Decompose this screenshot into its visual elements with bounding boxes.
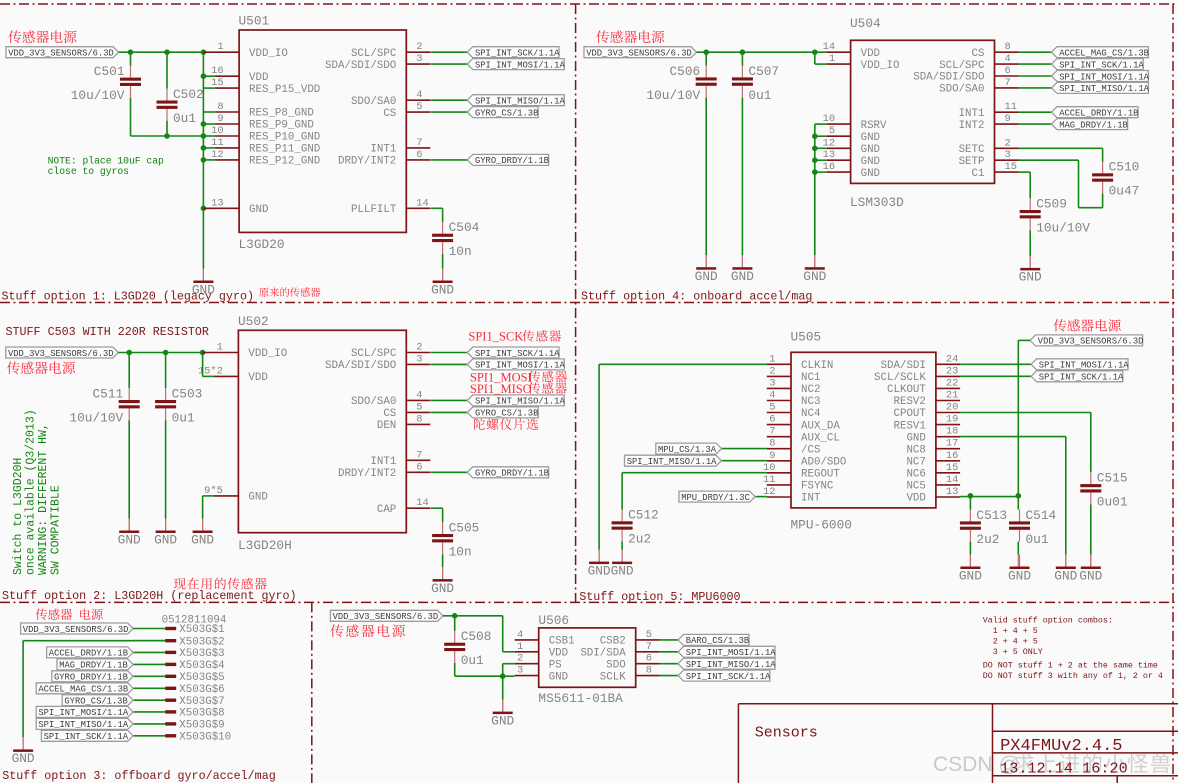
svg-text:11: 11 [763, 474, 775, 486]
svg-text:GYRO_CS/1.3B: GYRO_CS/1.3B [475, 409, 538, 419]
svg-text:SPI_INT_SCK/1.1A: SPI_INT_SCK/1.1A [686, 672, 771, 682]
svg-text:CS: CS [972, 48, 985, 60]
net label SPI_INT_MISO/1.1A [1052, 82, 1150, 94]
IC U506 MS5611-01BA [539, 628, 636, 687]
svg-text:9: 9 [217, 113, 223, 125]
svg-text:AUX_CL: AUX_CL [801, 432, 840, 444]
svg-text:VDD: VDD [249, 72, 268, 84]
pin 15 [211, 77, 239, 89]
node X503G$2 [133, 636, 225, 648]
wire flag to vertical [1018, 339, 1030, 341]
pin 3 [406, 353, 430, 365]
svg-text:BARO_CS/1.3B: BARO_CS/1.3B [686, 636, 749, 646]
svg-text:DRDY/INT2: DRDY/INT2 [338, 468, 396, 480]
capacitor C511 [69, 386, 139, 425]
section divider vertical center [575, 4, 577, 602]
svg-text:ACCEL_DRDY/1.1B: ACCEL_DRDY/1.1B [1059, 109, 1138, 119]
wires to net labels [431, 51, 468, 53]
PS pin2 elbow [503, 663, 515, 665]
svg-text:11: 11 [1005, 101, 1017, 113]
svg-text:NC5: NC5 [906, 481, 925, 493]
pin 12 [823, 137, 851, 149]
svg-text:Sensors: Sensors [755, 725, 818, 742]
svg-text:Stuff option 4: onboard accel/: Stuff option 4: onboard accel/mag [581, 290, 812, 304]
net label VDD_3V3_SENSORS/6.3D [330, 610, 443, 622]
svg-text:SPI1_SCK: SPI1_SCK [468, 330, 523, 344]
svg-text:1: 1 [829, 53, 835, 65]
svg-text:3: 3 [769, 377, 775, 389]
svg-text:NC1: NC1 [801, 372, 820, 384]
svg-text:SDO/SA0: SDO/SA0 [351, 96, 396, 108]
C501 leads [130, 52, 132, 66]
CAP wire to C505 [431, 507, 443, 509]
svg-text:7: 7 [1005, 77, 1011, 89]
svg-text:Switch to L3GD20H: Switch to L3GD20H [12, 458, 25, 575]
net label GYRO_CS/1.3B [467, 107, 538, 119]
pin 4 [406, 89, 430, 101]
net label MAG_DRDY/1.1B [57, 659, 133, 671]
svg-text:SPI_INT_MISO/1.1A: SPI_INT_MISO/1.1A [1059, 84, 1149, 94]
svg-text:RESV1: RESV1 [893, 420, 925, 432]
svg-text:GND: GND [861, 168, 880, 180]
svg-text:GND: GND [1019, 270, 1042, 285]
svg-text:VDD_3V3_SENSORS/6.3D: VDD_3V3_SENSORS/6.3D [586, 49, 692, 59]
svg-text:GND: GND [1079, 568, 1102, 583]
svg-text:6: 6 [646, 653, 652, 665]
svg-text:DO NOT stuff 1 + 2 at the same: DO NOT stuff 1 + 2 at the same time [983, 661, 1158, 671]
svg-text:9: 9 [769, 450, 775, 462]
ground [154, 519, 177, 548]
svg-text:4: 4 [769, 390, 775, 402]
svg-text:RES_P9_GND: RES_P9_GND [249, 120, 314, 132]
pin 3 [767, 377, 791, 389]
net label MPU_DRDY/1.3C [679, 491, 755, 503]
svg-text:SETC: SETC [959, 144, 985, 156]
svg-text:X503G$6: X503G$6 [179, 684, 224, 696]
svg-text:0u1: 0u1 [173, 111, 196, 126]
svg-text:VDD: VDD [248, 372, 267, 384]
svg-text:Stuff option 5: MPU6000: Stuff option 5: MPU6000 [579, 590, 740, 604]
svg-text:RES_P15_VDD: RES_P15_VDD [249, 84, 320, 96]
pin 13 [203, 197, 239, 209]
svg-text:REGOUT: REGOUT [801, 469, 840, 481]
svg-text:2: 2 [1005, 137, 1011, 149]
pin 7 [406, 137, 430, 149]
svg-text:18: 18 [946, 426, 958, 438]
svg-text:17: 17 [946, 438, 958, 450]
svg-text:C512: C512 [628, 508, 659, 523]
svg-text:X503G$3: X503G$3 [179, 648, 224, 660]
svg-text:SW COMPATIBLE: SW COMPATIBLE [50, 485, 63, 575]
ground [118, 519, 141, 548]
net label GYRO_DRDY/1.1B [467, 154, 549, 166]
svg-text:MAG_DRDY/1.1B: MAG_DRDY/1.1B [1059, 120, 1128, 130]
capacitor C507 [732, 64, 779, 103]
svg-text:10: 10 [823, 113, 835, 125]
pin 8 [406, 413, 430, 425]
svg-text:INT1: INT1 [959, 108, 985, 120]
svg-text:C515: C515 [1097, 471, 1128, 486]
svg-text:GND: GND [959, 568, 982, 583]
node X503G$7 [133, 696, 225, 708]
wire VDD_3V3_SENSORS to U501 pin1 [119, 51, 205, 53]
net label SPI_INT_MOSI/1.1A [678, 646, 776, 658]
svg-text:SPI_INT_SCK/1.1A: SPI_INT_SCK/1.1A [1039, 373, 1124, 383]
pin 2 [406, 41, 430, 53]
svg-text:VDD_3V3_SENSORS/6.3D: VDD_3V3_SENSORS/6.3D [8, 349, 114, 359]
svg-text:3: 3 [416, 53, 422, 65]
svg-text:2 + 4 + 5: 2 + 4 + 5 [983, 637, 1038, 647]
net label GYRO_CS/1.3B [62, 695, 133, 707]
ground [695, 255, 718, 284]
传感器电源 annotation (top-left) [8, 30, 76, 43]
svg-text:9*5: 9*5 [204, 485, 223, 497]
svg-text:0u1: 0u1 [461, 653, 484, 668]
net label MAG_DRDY/1.1B [1052, 119, 1128, 131]
svg-text:GND: GND [154, 532, 177, 547]
net label VDD_3V3_SENSORS/6.3D [21, 623, 134, 635]
svg-text:NC4: NC4 [801, 408, 820, 420]
svg-text:SDO: SDO [606, 659, 625, 671]
svg-text:C514: C514 [1026, 508, 1057, 523]
svg-text:GND: GND [118, 532, 141, 547]
svg-text:6: 6 [416, 461, 422, 473]
svg-text:C504: C504 [449, 220, 480, 235]
X503G$2 wire to GND [23, 640, 165, 642]
svg-text:MAG_DRDY/1.1B: MAG_DRDY/1.1B [59, 661, 128, 671]
pin 15*2 [198, 365, 238, 377]
svg-text:0u01: 0u01 [1097, 495, 1128, 510]
svg-text:6: 6 [769, 414, 775, 426]
pin 10 [823, 113, 851, 125]
svg-text:PX4FMUv2.4.5: PX4FMUv2.4.5 [1000, 737, 1122, 756]
svg-text:CS: CS [383, 408, 396, 420]
svg-text:2: 2 [769, 365, 775, 377]
ground [1019, 256, 1042, 285]
ground [611, 550, 634, 579]
svg-text:U504: U504 [850, 16, 881, 31]
node X503G$8 [133, 708, 225, 720]
SETC wire to C510 [1019, 147, 1103, 149]
pin 6 [995, 65, 1019, 77]
svg-text:NC8: NC8 [906, 444, 925, 456]
svg-text:L3GD20H: L3GD20H [238, 538, 292, 553]
svg-text:12: 12 [823, 137, 835, 149]
section divider horizontal 1 [0, 302, 1178, 304]
ground [731, 255, 754, 284]
pin 12 [211, 149, 239, 161]
svg-text:MPU_CS/1.3A: MPU_CS/1.3A [658, 445, 717, 455]
INT wire [755, 496, 767, 498]
svg-text:ACCEL_MAG_CS/1.3B: ACCEL_MAG_CS/1.3B [1059, 49, 1149, 59]
svg-text:X503G$2: X503G$2 [179, 636, 224, 648]
svg-text:SCL/SPC: SCL/SPC [939, 60, 985, 72]
svg-text:24: 24 [946, 353, 958, 365]
svg-text:8: 8 [416, 413, 422, 425]
pin 18 [936, 426, 960, 438]
net label VDD_3V3_SENSORS/6.3D [1030, 335, 1143, 347]
svg-text:LSM303D: LSM303D [850, 195, 904, 210]
svg-text:GND: GND [248, 492, 267, 504]
pin 1 [515, 641, 539, 653]
pin 10 [763, 462, 791, 474]
svg-text:4: 4 [1005, 53, 1011, 65]
svg-text:SPI_INT_MISO/1.1A: SPI_INT_MISO/1.1A [38, 720, 128, 730]
pin 10 [211, 125, 239, 137]
net label GYRO_DRDY/1.1B [467, 467, 549, 479]
ground [1008, 555, 1031, 584]
GND pin 9*5 wire [203, 495, 216, 497]
svg-text:2: 2 [416, 41, 422, 53]
svg-text:U502: U502 [238, 314, 269, 329]
svg-text:13: 13 [946, 486, 958, 498]
pin 2 [515, 653, 539, 665]
sheet border top [0, 3, 1178, 5]
node X503G$6 [133, 684, 225, 696]
net label VDD_3V3_SENSORS/6.3D [6, 47, 119, 59]
net label SPI_INT_SCK/1.1A [467, 347, 560, 359]
pin 2 [995, 137, 1019, 149]
svg-text:GND: GND [611, 563, 634, 578]
pin 9*5 [204, 485, 238, 497]
svg-text:WARNING: DIFFERENT HW,: WARNING: DIFFERENT HW, [37, 423, 50, 575]
svg-text:SPI_INT_SCK/1.1A: SPI_INT_SCK/1.1A [1059, 60, 1144, 70]
pin 9 [995, 113, 1019, 125]
svg-text:CLKIN: CLKIN [801, 360, 833, 372]
svg-text:VDD: VDD [861, 48, 880, 60]
svg-text:GND: GND [588, 563, 611, 578]
svg-text:SDA/SDI/SDO: SDA/SDI/SDO [325, 60, 396, 72]
svg-text:DEN: DEN [377, 420, 396, 432]
ground [431, 567, 454, 596]
svg-text:GYRO_CS/1.3B: GYRO_CS/1.3B [475, 108, 538, 118]
ground [959, 555, 982, 584]
wire stubs to pins 8-13 [203, 111, 215, 113]
C511/C503 leads [128, 353, 130, 389]
svg-text:RES_P12_GND: RES_P12_GND [249, 156, 320, 168]
wires to right net labels [660, 639, 679, 641]
svg-text:SCL/SCLK: SCL/SCLK [874, 372, 926, 384]
ground [1054, 555, 1077, 584]
svg-text:SETP: SETP [959, 156, 985, 168]
svg-text:13.12.14 16:20: 13.12.14 16:20 [1000, 760, 1128, 778]
svg-text:12: 12 [211, 149, 223, 161]
svg-text:5: 5 [416, 101, 422, 113]
svg-text:SPI_INT_SCK/1.1A: SPI_INT_SCK/1.1A [44, 732, 129, 742]
svg-text:SPI_INT_SCK/1.1A: SPI_INT_SCK/1.1A [475, 49, 560, 59]
svg-text:5: 5 [646, 629, 652, 641]
svg-text:ACCEL_DRDY/1.1B: ACCEL_DRDY/1.1B [49, 649, 128, 659]
svg-text:10u/10V: 10u/10V [1036, 220, 1090, 235]
pin 8 [995, 41, 1019, 53]
svg-text:X503G$10: X503G$10 [179, 732, 231, 744]
svg-text:GND: GND [1054, 568, 1077, 583]
vertical green note [12, 409, 63, 575]
svg-text:7: 7 [769, 426, 775, 438]
svg-text:SCL/SPC: SCL/SPC [351, 48, 397, 60]
pin 7 [767, 426, 791, 438]
svg-text:X503G$8: X503G$8 [179, 708, 224, 720]
svg-text:5: 5 [416, 401, 422, 413]
svg-text:2: 2 [517, 653, 523, 665]
pin 23 [936, 365, 960, 377]
svg-text:INT1: INT1 [370, 144, 396, 156]
IC U505 MPU-6000 [791, 352, 936, 508]
GND pin18 wire [960, 436, 1066, 438]
pin 21 [936, 390, 960, 402]
svg-text:15: 15 [946, 462, 958, 474]
svg-text:10: 10 [211, 125, 223, 137]
ground [491, 700, 514, 729]
/CS + AD0 wires [722, 448, 767, 450]
title block [738, 704, 1178, 783]
svg-text:6: 6 [1005, 65, 1011, 77]
wire to U502 pin1 [118, 352, 204, 354]
ground [192, 269, 215, 298]
svg-text:/CS: /CS [801, 444, 820, 456]
svg-text:7: 7 [646, 641, 652, 653]
传感器电源 annotation (top-right) [596, 30, 664, 43]
VDD pin13 wire [960, 496, 1018, 498]
ground [1079, 555, 1102, 584]
svg-text:INT: INT [801, 493, 821, 505]
net label SPI_INT_SCK/1.1A [467, 47, 560, 59]
pin 5 [636, 629, 660, 641]
svg-text:9: 9 [1005, 113, 1011, 125]
pin 14 [406, 197, 430, 209]
svg-text:4: 4 [416, 389, 422, 401]
pin 6 [636, 653, 660, 665]
svg-text:SPI_INT_SCK/1.1A: SPI_INT_SCK/1.1A [475, 349, 560, 359]
C504 to GND [442, 254, 444, 269]
net label SPI_INT_MISO/1.1A [678, 658, 776, 670]
net label ACCEL_DRDY/1.1B [47, 647, 134, 659]
net label SPI_INT_MISO/1.1A [467, 395, 565, 407]
pin 3 [406, 53, 430, 65]
svg-text:6: 6 [416, 149, 422, 161]
svg-text:GND: GND [861, 132, 880, 144]
wire stubs to pins 15,16 [203, 87, 215, 89]
svg-text:16: 16 [946, 450, 958, 462]
svg-text:GND: GND [249, 204, 268, 216]
capacitor C508 [444, 629, 491, 668]
svg-text:VDD_3V3_SENSORS/6.3D: VDD_3V3_SENSORS/6.3D [23, 625, 129, 635]
svg-text:close to gyros: close to gyros [48, 166, 130, 177]
pin 14 [406, 497, 430, 509]
node X503G$10 [133, 732, 231, 744]
pin 16 [936, 450, 960, 462]
svg-text:VDD: VDD [549, 648, 568, 660]
传感器电源 annotation (bottom-mid) [330, 624, 405, 637]
svg-text:SPI_INT_MOSI/1.1A: SPI_INT_MOSI/1.1A [475, 361, 565, 371]
wire flag to U506 VDD [443, 615, 503, 617]
pin 14 [936, 474, 960, 486]
pin 22 [936, 377, 960, 389]
svg-text:SPI_INT_MISO/1.1A: SPI_INT_MISO/1.1A [475, 397, 565, 407]
net label SPI_INT_MOSI/1.1A [1031, 359, 1129, 371]
svg-text:2: 2 [416, 342, 422, 354]
svg-text:NC2: NC2 [801, 384, 820, 396]
C1 wire to C509 [1019, 171, 1031, 173]
IC U501 L3GD20 [239, 30, 406, 232]
net label VDD_3V3_SENSORS/6.3D [584, 47, 697, 59]
svg-text:10u/10V: 10u/10V [71, 88, 125, 103]
svg-text:GND: GND [803, 269, 826, 284]
C508 leads [454, 616, 456, 631]
svg-text:10u/10V: 10u/10V [646, 88, 700, 103]
svg-text:10u/10V: 10u/10V [69, 410, 123, 425]
svg-text:X503G$5: X503G$5 [179, 672, 224, 684]
net label SPI_INT_MOSI/1.1A [36, 706, 133, 718]
svg-text:SPI_INT_MISO/1.1A: SPI_INT_MISO/1.1A [686, 660, 776, 670]
pin 8 [215, 101, 239, 113]
wires to net labels [431, 352, 468, 354]
svg-text:7: 7 [416, 137, 422, 149]
svg-text:PLLFILT: PLLFILT [351, 204, 397, 216]
C506/C507 leads [705, 52, 707, 65]
svg-text:10n: 10n [449, 244, 472, 259]
svg-text:RES_P10_GND: RES_P10_GND [249, 132, 320, 144]
现在用的传感器 annotation [174, 578, 267, 590]
svg-text:X503G$9: X503G$9 [179, 720, 224, 732]
pin 8 [767, 438, 791, 450]
svg-text:3 + 5 ONLY: 3 + 5 ONLY [983, 647, 1043, 657]
svg-text:Valid stuff option combos:: Valid stuff option combos: [983, 616, 1113, 626]
pin 2 [767, 365, 791, 377]
svg-text:SDO/SA0: SDO/SA0 [351, 396, 396, 408]
capacitor C515 [1080, 471, 1128, 510]
svg-text:C509: C509 [1036, 196, 1067, 211]
svg-text:GND: GND [861, 156, 880, 168]
svg-text:CPOUT: CPOUT [893, 408, 926, 420]
ground [803, 255, 826, 284]
svg-text:MS5611-01BA: MS5611-01BA [538, 691, 623, 706]
REGOUT wire to C512 [622, 472, 767, 474]
svg-text:GND: GND [695, 269, 718, 284]
svg-text:ACCEL_MAG_CS/1.3B: ACCEL_MAG_CS/1.3B [38, 685, 128, 695]
svg-text:1: 1 [217, 41, 223, 53]
junction dots [128, 49, 134, 55]
svg-text:8: 8 [1005, 41, 1011, 53]
svg-text:22: 22 [946, 377, 958, 389]
pin 5 [406, 101, 430, 113]
CPOUT wire to C515 [960, 412, 1091, 414]
svg-text:15*2: 15*2 [198, 365, 223, 377]
capacitor C512 [612, 508, 659, 547]
C508 bottom wire to pin3 [455, 675, 515, 677]
pin 7 [636, 641, 660, 653]
svg-text:GND: GND [549, 671, 568, 683]
svg-text:RES_P11_GND: RES_P11_GND [249, 144, 320, 156]
svg-text:C505: C505 [449, 520, 480, 535]
svg-text:GND: GND [906, 432, 925, 444]
svg-text:RESV2: RESV2 [893, 396, 925, 408]
svg-text:FSYNC: FSYNC [801, 481, 834, 493]
pin 24 [936, 353, 960, 365]
watermark [933, 753, 1170, 776]
svg-text:3: 3 [416, 353, 422, 365]
node X503G$4 [133, 660, 225, 672]
svg-text:SPI1_MISO: SPI1_MISO [470, 382, 532, 396]
net label SPI_INT_SCK/1.1A [1052, 59, 1145, 71]
pin 1 [202, 342, 238, 354]
net label ACCEL_MAG_CS/1.3B [36, 683, 133, 695]
svg-text:X503G$1: X503G$1 [179, 624, 224, 636]
svg-text:5: 5 [769, 402, 775, 414]
pin 8 [636, 665, 660, 677]
svg-text:C502: C502 [173, 87, 204, 102]
传感器电源 annotation (mid-left) [7, 361, 75, 374]
